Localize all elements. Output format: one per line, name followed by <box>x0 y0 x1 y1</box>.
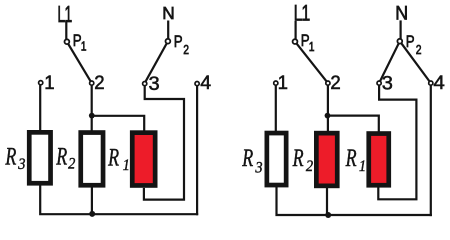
svg-text:2: 2 <box>68 155 76 173</box>
svg-text:2: 2 <box>183 43 189 57</box>
svg-text:3: 3 <box>254 159 263 177</box>
svg-text:L1: L1 <box>294 2 310 26</box>
svg-text:N: N <box>395 2 408 24</box>
svg-text:1: 1 <box>359 157 366 175</box>
svg-text:4: 4 <box>200 73 211 94</box>
svg-text:R: R <box>5 143 17 171</box>
svg-text:R: R <box>241 144 253 172</box>
svg-text:2: 2 <box>416 43 422 57</box>
svg-text:P: P <box>174 33 183 52</box>
svg-text:3: 3 <box>149 73 160 95</box>
svg-text:1: 1 <box>44 72 54 93</box>
svg-text:R: R <box>55 143 67 171</box>
svg-text:2: 2 <box>94 72 104 93</box>
svg-text:R: R <box>107 144 119 172</box>
svg-text:1: 1 <box>309 40 315 54</box>
svg-text:4: 4 <box>433 73 444 94</box>
svg-text:R: R <box>292 144 304 172</box>
svg-text:3: 3 <box>17 155 26 173</box>
svg-text:1: 1 <box>123 156 130 174</box>
svg-text:L1: L1 <box>57 3 71 28</box>
svg-text:1: 1 <box>278 72 288 93</box>
svg-text:P: P <box>406 33 415 52</box>
svg-text:1: 1 <box>81 40 87 54</box>
svg-text:2: 2 <box>306 157 314 175</box>
svg-text:N: N <box>162 3 174 23</box>
svg-text:2: 2 <box>330 72 340 93</box>
svg-text:3: 3 <box>382 73 393 95</box>
svg-text:R: R <box>345 144 357 172</box>
